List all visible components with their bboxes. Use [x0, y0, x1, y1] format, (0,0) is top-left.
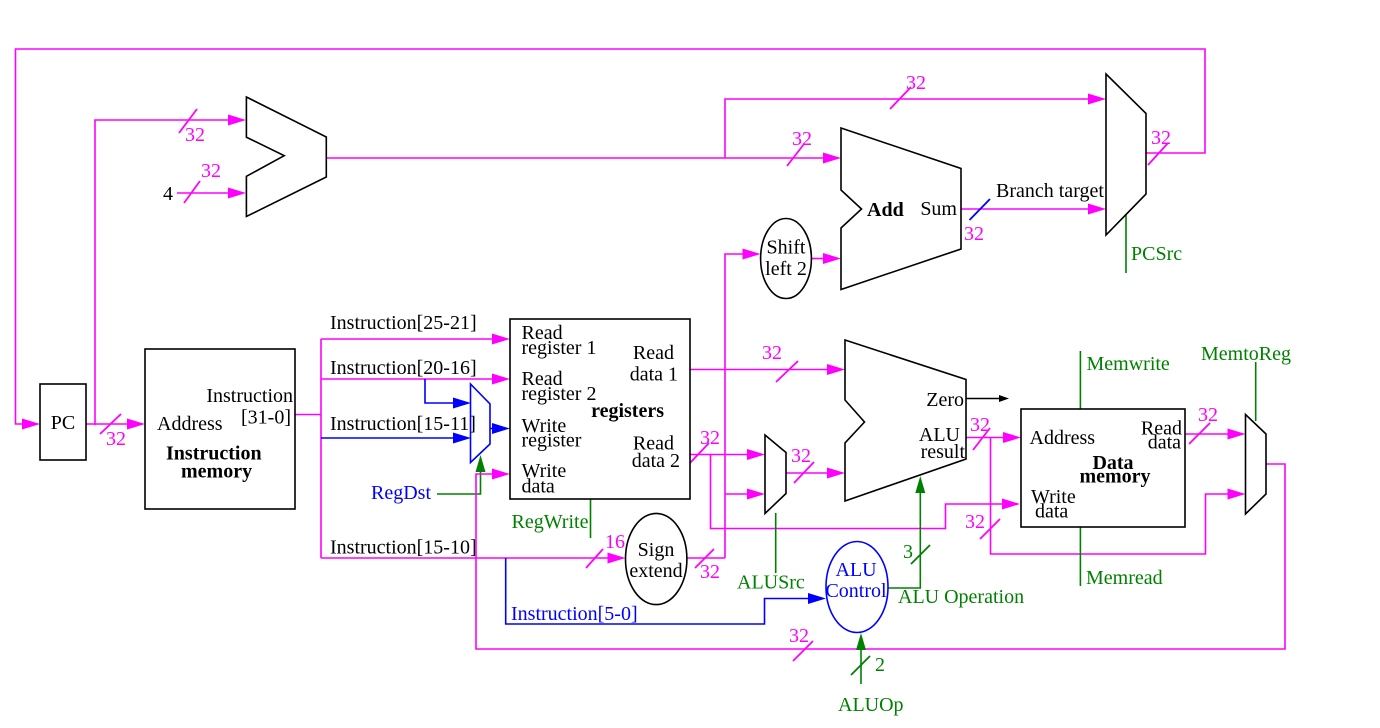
svg-text:ALU: ALU	[835, 559, 877, 581]
wire PC value up to PC+4 adder input 1	[95, 115, 246, 426]
svg-text:extend: extend	[629, 560, 682, 582]
wire PC feedback loop from PCSrc mux output to PC input	[16, 49, 1206, 430]
label Instruction[5-0]	[511, 603, 638, 625]
wire sign-extend branch to ALUSrc mux input 1	[725, 489, 765, 500]
svg-text:32: 32	[185, 124, 205, 146]
mux PCSrc select	[1106, 74, 1146, 235]
wire Instruction[5-0] to ALU control	[506, 558, 826, 624]
node Memread control line	[1080, 527, 1162, 589]
node PCSrc control line below mux	[1126, 215, 1182, 273]
svg-text:register 2: register 2	[522, 383, 597, 405]
bus width slash 32 on Read data 1	[762, 342, 798, 382]
label Instruction[25-21]	[330, 312, 477, 334]
mux RegDst select (blue)	[471, 384, 491, 463]
svg-text:4: 4	[163, 183, 173, 205]
svg-text:32: 32	[762, 342, 782, 364]
bus width slash 32 (blue slash) on Sum output	[964, 199, 990, 245]
svg-text:Instruction[15-11]: Instruction[15-11]	[330, 413, 476, 435]
bus width slash 32 on sign extend output	[695, 549, 720, 583]
svg-text:data 1: data 1	[630, 364, 678, 386]
wire Zero flag output	[966, 395, 1009, 402]
svg-text:32: 32	[1198, 404, 1218, 426]
register PC	[40, 384, 86, 460]
bus width slash 32 on PC output	[100, 414, 126, 450]
svg-text:result: result	[921, 441, 966, 463]
wire Read data 2 to ALUSrc mux input 0	[690, 449, 765, 460]
bus width slash 32 before Add unit	[787, 128, 812, 166]
svg-text:data: data	[522, 476, 555, 498]
alu ALU main	[845, 340, 966, 501]
bus width slash 32 on ALU result bypass	[965, 511, 1000, 539]
wire Instruction[31-0] output of instruction memory to bus	[295, 414, 321, 416]
wire Shift left 2 output to Add unit input 2	[812, 253, 841, 264]
constant 4 input to adder	[163, 183, 246, 205]
svg-text:Instruction: Instruction	[206, 385, 293, 407]
svg-text:Read: Read	[633, 342, 674, 364]
wire PC+4 branch up to PCSrc mux input 0	[725, 94, 1106, 159]
svg-text:32: 32	[106, 428, 126, 450]
svg-text:Instruction[20-16]: Instruction[20-16]	[330, 357, 477, 379]
svg-text:Instruction[25-21]: Instruction[25-21]	[330, 312, 477, 334]
wire Add Sum output to PCSrc mux input 1	[961, 204, 1106, 215]
svg-text:RegWrite: RegWrite	[512, 511, 589, 533]
svg-text:ALUOp: ALUOp	[838, 694, 904, 716]
svg-text:32: 32	[970, 414, 990, 436]
svg-text:data 2: data 2	[632, 450, 680, 472]
wire Instruction[20-16] branch to RegDst mux input 0	[425, 379, 471, 409]
wire ALUSrc mux output to ALU input 2	[786, 468, 845, 479]
wire adder output PC+4 to Add unit input 1	[326, 153, 841, 164]
label Branch target	[996, 180, 1104, 202]
wire Read data 2 branch to Data memory Write data	[711, 455, 1021, 529]
svg-text:2: 2	[875, 654, 885, 676]
svg-text:memory: memory	[181, 461, 252, 483]
svg-text:32: 32	[906, 72, 926, 94]
svg-text:32: 32	[1151, 127, 1171, 149]
node RegWrite control line	[512, 499, 591, 538]
adder Add branch target	[841, 128, 961, 290]
label ALUOp	[838, 694, 904, 716]
svg-text:[31-0]: [31-0]	[241, 407, 291, 429]
component Shift left 2	[761, 219, 812, 299]
svg-text:Address: Address	[1030, 427, 1096, 449]
svg-text:Address: Address	[157, 413, 223, 435]
svg-text:Sum: Sum	[920, 198, 957, 220]
svg-text:MemtoReg: MemtoReg	[1201, 343, 1291, 365]
wire Instruction[20-16] to Read register 2	[321, 374, 510, 385]
mux MemtoReg select	[1246, 415, 1267, 515]
bus width slash 32 on write-back wire	[789, 625, 813, 661]
svg-text:32: 32	[700, 561, 720, 583]
svg-text:register: register	[522, 430, 582, 452]
svg-text:Sign: Sign	[638, 539, 675, 561]
wire ALU control to ALU operation select	[888, 476, 925, 588]
svg-text:Control: Control	[825, 580, 887, 602]
wire RegDst control to mux select	[371, 455, 486, 504]
svg-text:32: 32	[201, 160, 221, 182]
bus width slash 3 on ALU operation	[903, 541, 930, 564]
svg-text:registers: registers	[591, 400, 664, 422]
svg-text:Add: Add	[867, 199, 904, 221]
component registers	[510, 319, 690, 499]
svg-text:Memwrite: Memwrite	[1087, 353, 1170, 375]
wire PC output to Instruction memory Address	[86, 419, 145, 430]
node MemtoReg control line	[1201, 343, 1291, 421]
svg-text:RegDst: RegDst	[371, 482, 431, 504]
svg-text:data: data	[1035, 501, 1068, 523]
svg-text:32: 32	[700, 427, 720, 449]
label Instruction[15-10]	[330, 537, 477, 559]
wire Read data 1 to ALU input 1	[690, 364, 845, 375]
component Sign extend	[626, 513, 687, 604]
svg-text:Branch target: Branch target	[996, 180, 1104, 202]
bus width slash 32 on ALU result	[970, 414, 990, 450]
label Instruction[20-16]	[330, 357, 477, 379]
svg-text:32: 32	[791, 445, 811, 467]
svg-text:Instruction[5-0]: Instruction[5-0]	[511, 603, 638, 625]
component ALU control (blue ellipse)	[825, 542, 888, 633]
bus width slash 32 on ALUSrc mux output	[791, 445, 814, 483]
component Data memory	[1021, 409, 1185, 527]
wire RegDst mux output to Write register	[490, 423, 510, 434]
svg-text:memory: memory	[1079, 466, 1150, 488]
node ALUSrc control line	[737, 513, 805, 594]
svg-text:register 1: register 1	[522, 337, 597, 359]
wire Instruction[15-10] to Sign extend	[321, 553, 626, 564]
node ALUOp control input	[856, 633, 866, 684]
bus vertical instruction field distribution	[320, 339, 322, 558]
svg-text:Memread: Memread	[1086, 567, 1163, 589]
svg-text:left 2: left 2	[765, 258, 807, 280]
mux ALUSrc select	[765, 435, 786, 514]
svg-text:32: 32	[964, 223, 984, 245]
wire sign-extend output up to Shift left 2 input	[687, 249, 761, 559]
bus width slash 32 on adder input 1	[179, 109, 205, 146]
svg-text:32: 32	[965, 511, 985, 533]
svg-text:Shift: Shift	[767, 237, 806, 259]
svg-text:Zero: Zero	[926, 389, 964, 411]
bus width slash 16 on sign extend input	[586, 531, 625, 568]
svg-text:PCSrc: PCSrc	[1131, 243, 1182, 265]
wire Instruction[15-11] to RegDst mux input 1	[321, 433, 471, 444]
wire ALU result bypass to MemtoReg mux input 1	[991, 438, 1246, 555]
bus width slash 32 on PC+4 to mux	[890, 72, 926, 109]
svg-text:32: 32	[792, 128, 812, 150]
wire Data memory Read data to MemtoReg mux input 0	[1185, 429, 1246, 440]
bus width slash 32 on constant 4 input	[184, 160, 221, 203]
svg-text:data: data	[1148, 432, 1181, 454]
wire MemtoReg mux output write-back to registers Write data	[476, 464, 1285, 649]
component Instruction memory	[145, 349, 295, 509]
svg-text:Instruction[15-10]: Instruction[15-10]	[330, 537, 477, 559]
bus width slash 2 on ALUOp	[851, 654, 885, 676]
svg-text:PC: PC	[51, 412, 75, 434]
bus width slash 32 on PCSrc mux output	[1148, 127, 1171, 165]
node Memwrite control line	[1080, 351, 1170, 409]
label Instruction[15-11]	[330, 413, 476, 435]
adder PC+4	[246, 97, 326, 217]
svg-text:ALU Operation: ALU Operation	[898, 586, 1024, 608]
svg-text:ALUSrc: ALUSrc	[737, 572, 805, 594]
bus width slash 32 on memory Read data	[1189, 404, 1218, 444]
wire Instruction[25-21] to Read register 1	[321, 334, 510, 345]
svg-text:3: 3	[903, 541, 913, 563]
svg-text:16: 16	[605, 531, 625, 553]
wire ALU result to Data memory Address	[966, 432, 1021, 443]
svg-text:32: 32	[789, 625, 809, 647]
label ALU Operation	[898, 586, 1024, 608]
bus width slash 32 on Read data 2	[690, 427, 720, 463]
